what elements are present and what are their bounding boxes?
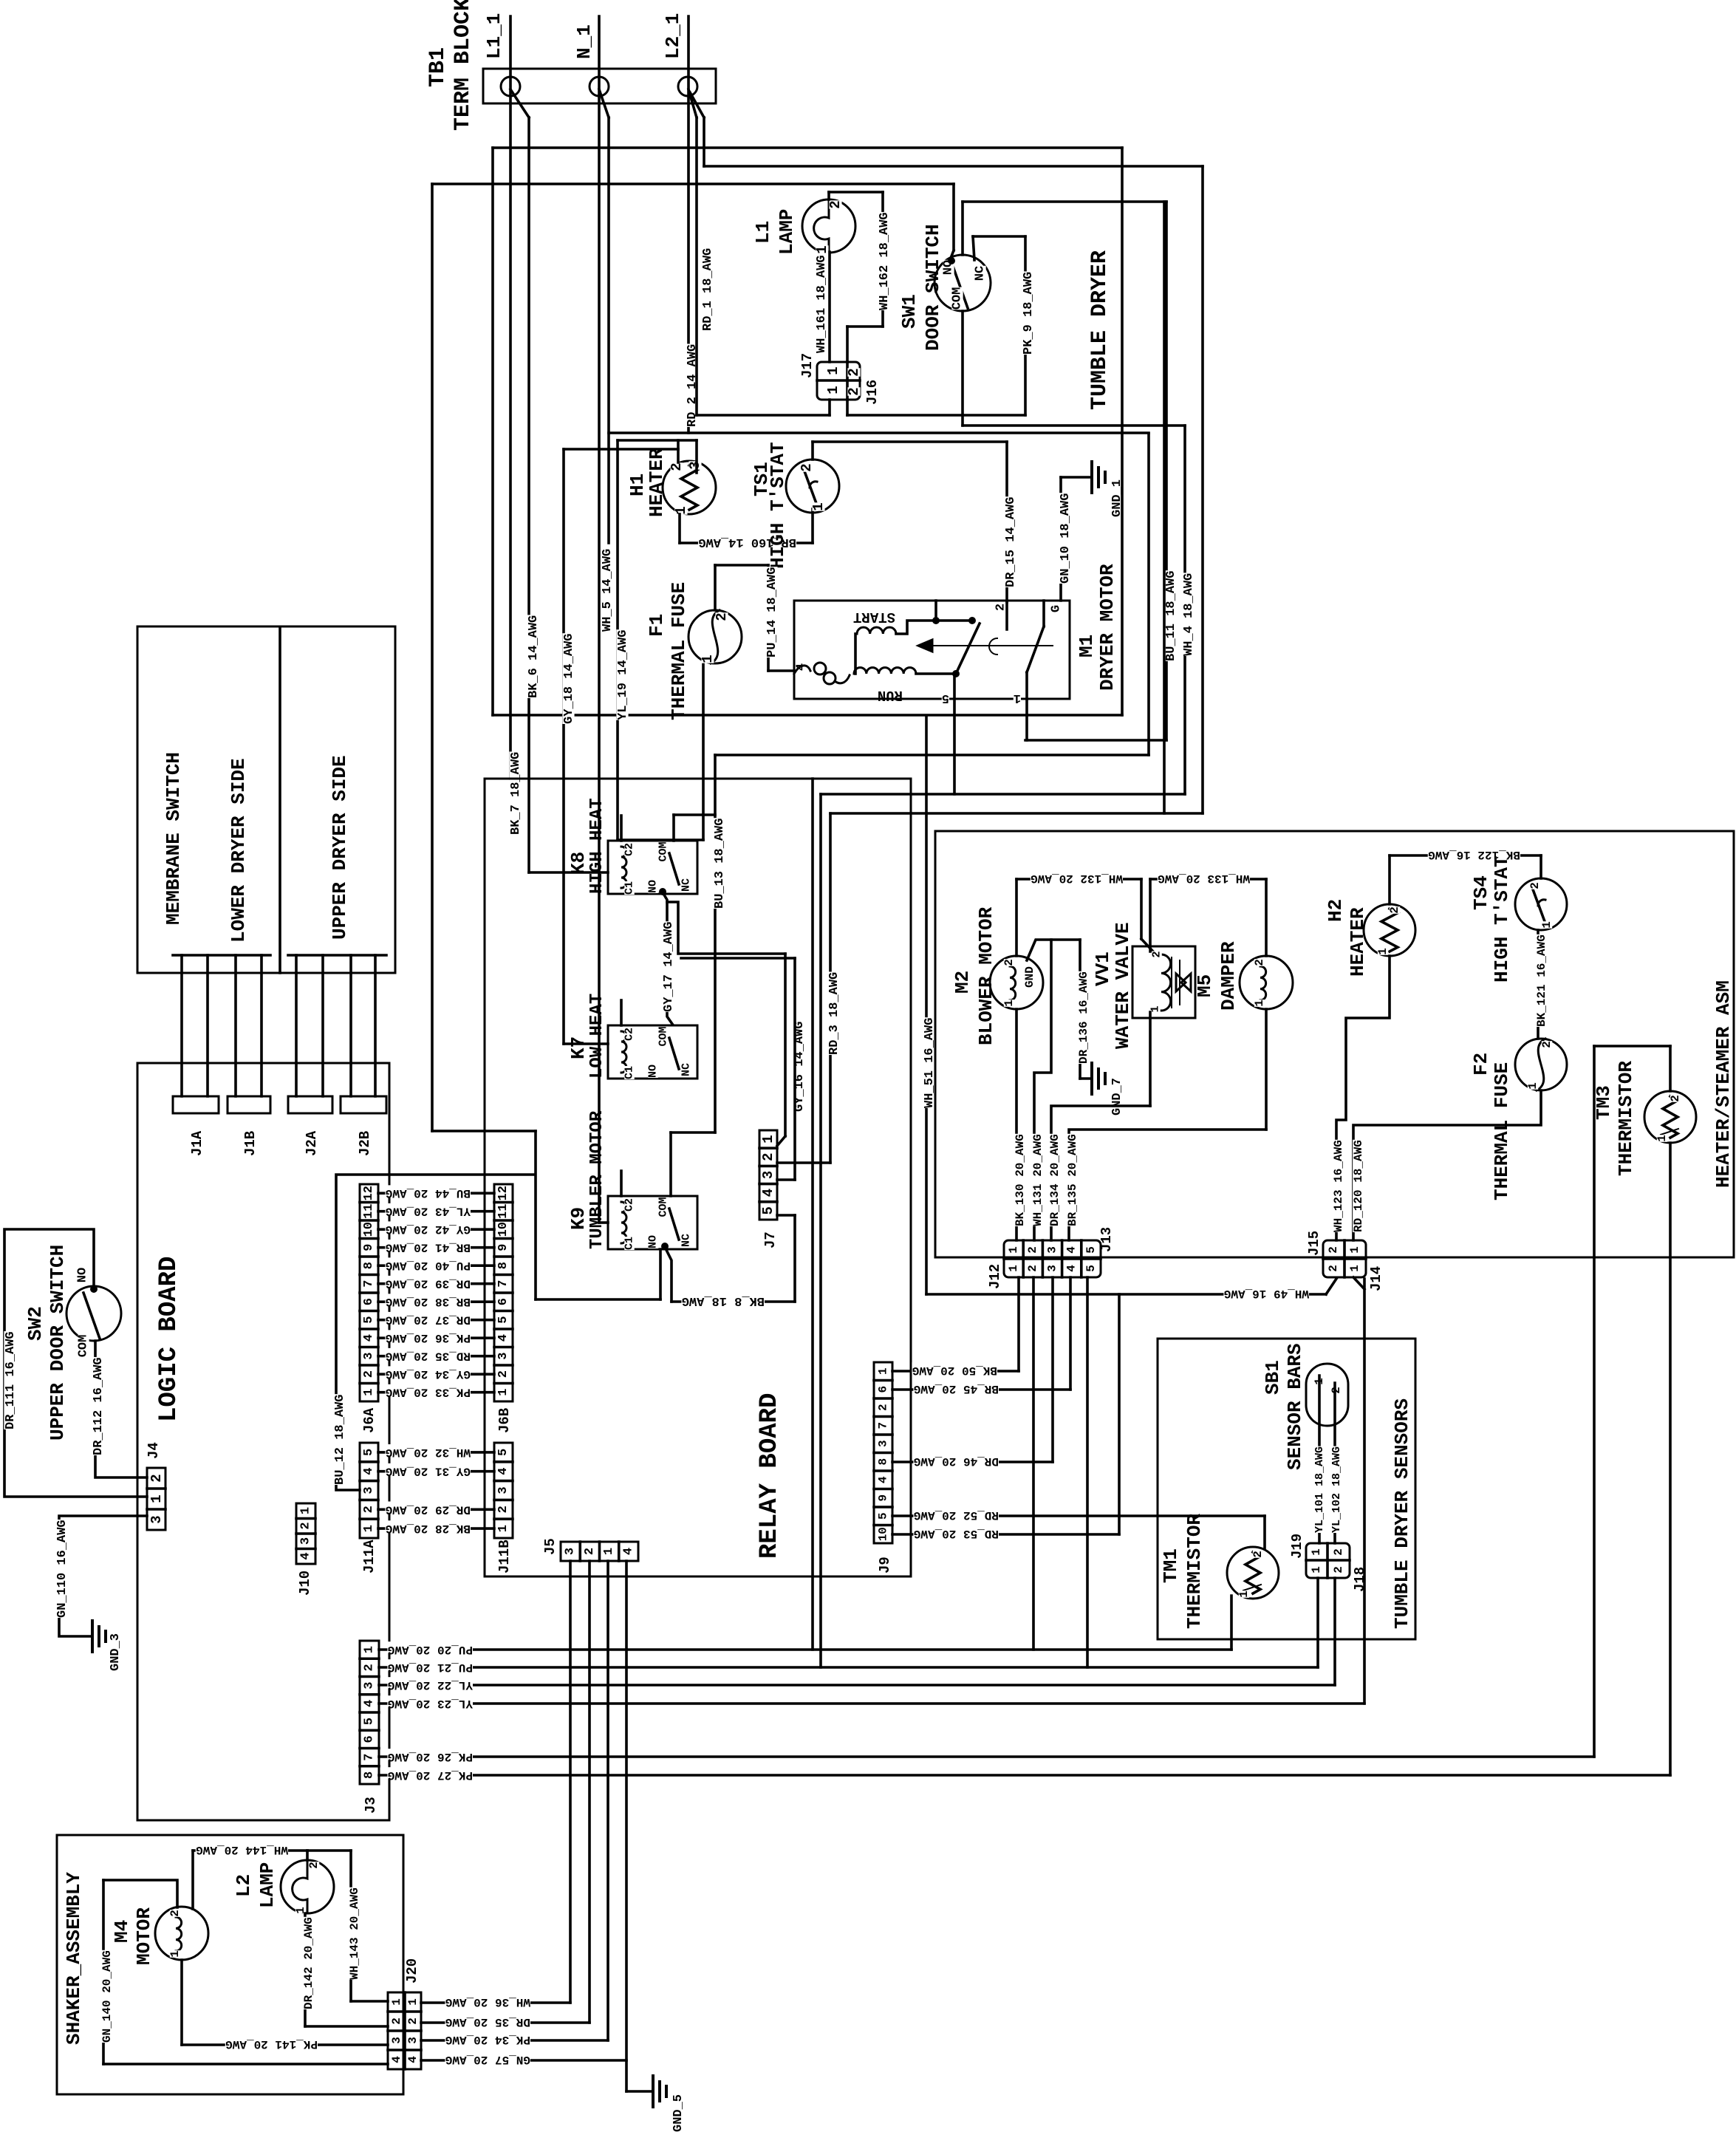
svg-text:3: 3 — [148, 1515, 165, 1523]
svg-text:BR_45 20_AWG: BR_45 20_AWG — [914, 1382, 999, 1395]
heater H2 — [1364, 904, 1415, 956]
svg-text:2: 2 — [827, 200, 844, 208]
connector J4 — [147, 1468, 165, 1530]
svg-text:TM3: TM3 — [1593, 1085, 1615, 1120]
label GN_140 — [101, 1950, 112, 2043]
label DR_136 — [1078, 971, 1089, 1064]
svg-text:YL_19 14_AWG: YL_19 14_AWG — [616, 630, 630, 720]
thermistor TM1 element — [1245, 1552, 1260, 1593]
wire K9 coil C2 stem — [620, 1171, 623, 1196]
svg-text:TUMBLE DRYER SENSORS: TUMBLE DRYER SENSORS — [1391, 1398, 1413, 1629]
wire WH_133 to M5-2 — [1265, 879, 1268, 956]
svg-text:DR_136 16_AWG: DR_136 16_AWG — [1077, 971, 1090, 1064]
svg-text:8: 8 — [362, 1262, 376, 1269]
wire J12-4 stem — [1069, 1277, 1072, 1390]
WV1 solenoid — [1161, 954, 1171, 1011]
svg-text:2: 2 — [1540, 1041, 1554, 1048]
connector J10 — [296, 1503, 315, 1564]
svg-text:HIGH T'STAT: HIGH T'STAT — [767, 442, 789, 569]
relay K9 contact lever — [669, 1209, 679, 1240]
svg-text:START: START — [853, 609, 895, 625]
wire WH_144 horizontal — [193, 1849, 307, 1852]
svg-text:1: 1 — [1376, 948, 1390, 955]
ribbon cable J2B right — [374, 955, 377, 1096]
svg-text:2: 2 — [1026, 1246, 1039, 1254]
thermistor TM3 element — [1663, 1096, 1678, 1138]
thermostat TS4 — [1515, 878, 1567, 930]
wire YL_19 vertical — [616, 440, 619, 840]
wire PK_9 top elbow — [973, 235, 1025, 238]
wire BU_13 bottom elbow — [671, 1131, 715, 1134]
thermal fuse F1 element — [711, 610, 720, 663]
wire BK_121 TS4-1 to F2-2 — [1537, 930, 1539, 1039]
thermostat TS4 lever hook — [1538, 900, 1545, 906]
wire horizontal y1531 — [432, 1130, 536, 1132]
wire WH_123 H2-1 to J15-2 — [1336, 956, 1390, 1240]
svg-text:1: 1 — [814, 245, 830, 253]
wire SW1-NO second drop — [961, 202, 964, 255]
svg-text:WH_36 20_AWG: WH_36 20_AWG — [445, 1995, 530, 2009]
pin 4 of M1 — [796, 663, 807, 671]
wire PK_34 J20 to J5-1 — [421, 2039, 608, 2042]
svg-text:TB1: TB1 — [426, 47, 451, 87]
wire GN_57 J20 to GND_5 — [421, 2059, 626, 2062]
heater/steamer assembly box — [935, 831, 1734, 1257]
wire N_1 branch diagonal — [599, 89, 609, 117]
svg-text:J13: J13 — [1098, 1227, 1115, 1252]
svg-text:COM: COM — [77, 1335, 91, 1358]
svg-text:RD_3 18_AWG: RD_3 18_AWG — [827, 972, 841, 1055]
wire BR_160 horizontal — [680, 541, 813, 544]
svg-text:2: 2 — [714, 612, 730, 621]
svg-text:4: 4 — [621, 1548, 635, 1555]
svg-text:2: 2 — [307, 1862, 321, 1869]
svg-text:J20: J20 — [404, 1958, 420, 1984]
svg-text:2: 2 — [1253, 959, 1266, 966]
svg-text:J3: J3 — [363, 1797, 379, 1814]
svg-text:BK_8 18_AWG: BK_8 18_AWG — [682, 1294, 765, 1308]
svg-text:2: 2 — [1388, 906, 1401, 914]
WV1 valve line b — [1179, 960, 1180, 1005]
label RD_120 — [1353, 1140, 1364, 1232]
svg-text:C2: C2 — [623, 1198, 636, 1212]
wire DR_39 J6A to J6B — [378, 1282, 494, 1285]
svg-text:3: 3 — [1045, 1265, 1059, 1272]
wire vertical x585 — [431, 184, 434, 1131]
wire PU_14 into M1-4 — [768, 669, 794, 672]
svg-text:J11A: J11A — [361, 1540, 377, 1574]
wire RD_2 jog horizontal y1022 — [715, 754, 1149, 756]
svg-text:BK_7 18_AWG: BK_7 18_AWG — [509, 752, 523, 835]
wire PK_26 from J3-7 — [379, 1755, 1594, 1758]
wire TM1-1 stem — [1230, 1596, 1233, 1650]
wire PK_27 TM3-1 vertical — [1669, 1143, 1672, 1775]
heater H1 — [663, 461, 716, 514]
ribbon cable J2B left — [349, 955, 352, 1096]
wire PK_9 vertical — [1024, 236, 1027, 415]
svg-text:7: 7 — [363, 1753, 377, 1760]
svg-text:DAMPER: DAMPER — [1217, 941, 1240, 1011]
wire horizontal y1759 to K9-NO — [536, 1298, 660, 1301]
svg-text:2: 2 — [496, 1370, 510, 1378]
wire WH_143 to J20-1 — [351, 2000, 388, 2003]
wire GY_31 J11A to J11B — [378, 1470, 494, 1473]
svg-text:2: 2 — [583, 1548, 597, 1555]
wire BK_8 vertical — [793, 1215, 796, 1302]
wire PK_27 from J3-8 — [379, 1774, 1670, 1777]
svg-text:2: 2 — [1332, 1548, 1345, 1556]
svg-text:WATER VALVE: WATER VALVE — [1112, 922, 1134, 1049]
svg-text:BU_44 20_AWG: BU_44 20_AWG — [386, 1186, 471, 1200]
WV1 valve triangle a — [1176, 974, 1186, 991]
lamp L1 filament — [814, 194, 829, 253]
wire BK_8 horizontal — [671, 1300, 795, 1303]
svg-text:1: 1 — [1348, 1265, 1361, 1272]
lamp L2 — [281, 1860, 334, 1913]
svg-text:WH_32 20_AWG: WH_32 20_AWG — [386, 1446, 471, 1459]
wire DR_111 SW2-NO to J4-1 — [4, 1229, 147, 1497]
relay K9 — [608, 1196, 697, 1249]
svg-text:4: 4 — [390, 2056, 403, 2063]
wire DR_134 from WV1-1 — [1149, 1012, 1152, 1106]
svg-text:GN_110 16_AWG: GN_110 16_AWG — [55, 1520, 69, 1618]
svg-text:COM: COM — [951, 287, 965, 310]
M1 tap from top edge — [934, 601, 937, 621]
svg-text:L2: L2 — [233, 1874, 255, 1897]
connector J3 — [360, 1641, 379, 1784]
svg-text:2: 2 — [1026, 1265, 1039, 1272]
wire PU_40 J6A to J6B — [378, 1264, 494, 1267]
wire SW1-NO feed horizontal y249 — [432, 182, 954, 185]
svg-text:PK_141 20_AWG: PK_141 20_AWG — [225, 2037, 318, 2051]
relay board box — [485, 779, 911, 1576]
svg-text:3: 3 — [363, 1681, 377, 1689]
label WH_161 — [815, 255, 827, 353]
wire K7 coil C2 stem — [620, 1000, 623, 1025]
motor M1 box — [794, 601, 1070, 699]
svg-text:GY_31 20_AWG: GY_31 20_AWG — [386, 1465, 471, 1478]
svg-text:1: 1 — [390, 1998, 403, 2006]
wire WH_132 vertical — [1140, 879, 1143, 939]
svg-text:H2: H2 — [1325, 899, 1347, 922]
relay K7 coil — [621, 1031, 626, 1073]
svg-text:C2: C2 — [623, 1028, 636, 1041]
wire GY_18 vertical — [562, 449, 565, 1044]
wire vertical x1519 — [1121, 148, 1124, 715]
wire K8-COM stem — [672, 815, 675, 841]
ribbon cable J2A left — [295, 955, 298, 1096]
wire SW1-COM vertical — [961, 311, 964, 426]
label RD_1 — [701, 247, 713, 331]
svg-text:J6A: J6A — [361, 1407, 377, 1433]
ground GND_1 — [1090, 462, 1093, 493]
svg-text:TERM BLOCK: TERM BLOCK — [451, 0, 476, 131]
M1 second contact lever — [1027, 626, 1044, 672]
wire RD_2 vertical x1555 — [1147, 434, 1150, 755]
svg-text:2: 2 — [299, 1522, 313, 1529]
wire horizontal y225 to x1628 — [704, 165, 1203, 168]
M1 centrifugal squiggle left — [794, 666, 810, 674]
wire RD_1 to J16-1 — [697, 414, 830, 417]
wire L1 pin2 stem — [827, 192, 830, 199]
wire PK_36 J6A to J6B — [378, 1336, 494, 1339]
svg-text:COM: COM — [657, 1026, 670, 1046]
thermostat TS4 lever — [1533, 889, 1545, 923]
membrane switch divider — [278, 629, 281, 973]
thermostat TS1 lever — [804, 471, 817, 505]
wire WH_143 top — [307, 1849, 351, 1852]
M1 rotor arrow shaft — [918, 645, 1053, 646]
svg-text:7: 7 — [362, 1280, 376, 1288]
wire DR_29 J11A to J11B — [378, 1509, 494, 1511]
svg-text:C1: C1 — [623, 881, 636, 895]
wire WH_162 elbow — [847, 325, 883, 328]
wire BU_44 J6A to J6B — [378, 1192, 494, 1195]
svg-text:WH_162 18_AWG: WH_162 18_AWG — [878, 212, 892, 310]
label WH_133 — [1158, 870, 1250, 881]
label BK_122 — [1428, 847, 1520, 858]
label BK_121 — [1536, 935, 1547, 1027]
svg-text:YL_43 20_AWG: YL_43 20_AWG — [386, 1205, 471, 1218]
wire GY_16 into J7-1 — [777, 1136, 785, 1146]
M1 second contact stem — [1042, 601, 1045, 626]
label BU_13 — [713, 818, 725, 909]
connector J11B — [494, 1443, 513, 1538]
svg-text:J9: J9 — [877, 1557, 893, 1574]
wire WH_131 to J13-2 — [1034, 940, 1051, 1240]
wire PK_9 horizontal y562 — [847, 414, 1025, 417]
wire F1 pin1 stem — [702, 663, 705, 840]
M1 switch lever — [956, 623, 980, 674]
svg-text:8: 8 — [877, 1458, 890, 1466]
svg-text:2: 2 — [148, 1474, 165, 1482]
svg-text:PK_26 20_AWG: PK_26 20_AWG — [388, 1750, 473, 1763]
ribbon cable J1A right — [206, 955, 209, 1096]
door switch SW2 — [66, 1286, 121, 1341]
svg-text:5: 5 — [362, 1316, 376, 1324]
connector J11A — [360, 1443, 378, 1538]
M5 winding — [1260, 966, 1266, 1000]
svg-text:10: 10 — [877, 1527, 890, 1541]
switch SW2 lever — [83, 1293, 100, 1339]
svg-text:RD_53 20_AWG: RD_53 20_AWG — [914, 1527, 999, 1540]
svg-text:3: 3 — [687, 461, 703, 469]
wire WH_51 vertical — [925, 716, 928, 1294]
svg-text:3: 3 — [390, 2037, 403, 2044]
svg-text:3: 3 — [406, 2037, 420, 2044]
water valve WV1 box — [1132, 946, 1195, 1018]
svg-text:NO: NO — [647, 1235, 660, 1248]
ribbon cable J1B left — [234, 955, 237, 1096]
svg-text:YL_22 20_AWG: YL_22 20_AWG — [388, 1678, 473, 1692]
svg-text:4: 4 — [299, 1552, 313, 1559]
svg-text:4: 4 — [1065, 1246, 1079, 1254]
svg-text:1: 1 — [1655, 1135, 1669, 1142]
svg-text:5: 5 — [496, 1449, 510, 1456]
label BK_8 — [681, 1293, 765, 1305]
svg-text:BR_38 20_AWG: BR_38 20_AWG — [386, 1295, 471, 1308]
blower motor M2 — [990, 956, 1043, 1009]
wire neutral loop horizontal y968 — [493, 714, 1122, 717]
wire J18-2 stem down — [1333, 1578, 1336, 1685]
svg-text:DRYER MOTOR: DRYER MOTOR — [1096, 564, 1118, 691]
label PK_141 — [225, 2036, 318, 2047]
label BK_130 — [1014, 1134, 1025, 1226]
wire GY_16 vertical — [784, 954, 787, 1136]
svg-text:3: 3 — [877, 1440, 890, 1447]
svg-text:GY_18 14_AWG: GY_18 14_AWG — [562, 634, 576, 724]
svg-text:TUMBLER MOTOR: TUMBLER MOTOR — [587, 1110, 607, 1249]
label GN_10 — [1059, 493, 1070, 584]
connector J17/J16 column divider — [846, 362, 849, 400]
wire WH_5 N_1 main vertical — [598, 16, 601, 1223]
wire J12-5 stem long — [1086, 1277, 1089, 1667]
wire J16-2 stem — [846, 400, 849, 415]
svg-text:GY_42 20_AWG: GY_42 20_AWG — [386, 1223, 471, 1236]
wire WH_4 horizontal y576 — [963, 424, 1185, 427]
svg-text:11: 11 — [362, 1203, 376, 1218]
svg-text:GND_3: GND_3 — [109, 1633, 123, 1671]
svg-text:GN_10 18_AWG: GN_10 18_AWG — [1059, 493, 1073, 584]
wire J18-1 stem down — [1316, 1578, 1319, 1667]
svg-text:1: 1 — [496, 1389, 510, 1396]
lamp L1 — [802, 199, 855, 253]
svg-text:BLOWER MOTOR: BLOWER MOTOR — [975, 906, 997, 1045]
svg-text:K8: K8 — [567, 852, 590, 875]
wire WH_32 J11A to J11B — [378, 1451, 494, 1454]
svg-text:4: 4 — [496, 1468, 510, 1475]
label BK_6 — [527, 615, 539, 698]
svg-text:1: 1 — [1007, 1246, 1020, 1254]
svg-text:THERMAL FUSE: THERMAL FUSE — [668, 582, 690, 720]
M2 winding — [1010, 966, 1016, 1000]
wire YL_43 J6A to J6B — [378, 1210, 494, 1213]
svg-text:NC: NC — [680, 878, 693, 892]
svg-text:2: 2 — [1669, 1095, 1682, 1102]
wire WH_143 vertical — [349, 1851, 352, 2001]
label PU_14 — [765, 567, 777, 657]
svg-text:WH_4 18_AWG: WH_4 18_AWG — [1182, 573, 1196, 656]
relay K8 coil — [621, 847, 626, 888]
svg-text:1: 1 — [406, 1998, 420, 2006]
label WH_5 — [601, 548, 612, 632]
svg-text:HEATER/STEAMER ASM: HEATER/STEAMER ASM — [1712, 980, 1735, 1188]
wire RD_2 L2_1 main vertical — [687, 16, 690, 433]
svg-text:UPPER DOOR SWITCH: UPPER DOOR SWITCH — [47, 1245, 69, 1441]
label WH_131 — [1032, 1134, 1043, 1226]
wire RD_2 horizontal y586 — [609, 431, 1149, 434]
svg-text:GY_17 14_AWG: GY_17 14_AWG — [662, 922, 676, 1012]
M1 rotation arc — [989, 638, 997, 655]
svg-text:5: 5 — [1084, 1265, 1098, 1272]
ribbon cable J2A right — [321, 955, 324, 1096]
svg-text:DR_111 16_AWG: DR_111 16_AWG — [4, 1331, 18, 1429]
connector J1B — [228, 1096, 270, 1113]
wire DR_112 SW2-COM to J4-2 — [95, 1341, 147, 1477]
svg-text:5: 5 — [496, 1316, 510, 1324]
svg-text:J2A: J2A — [304, 1130, 320, 1156]
wire y1075 to M1-5 — [821, 793, 1185, 796]
pin G of M1 — [1050, 605, 1062, 612]
label PK_9 — [1022, 271, 1033, 355]
wire YL_19 to F1-1 — [618, 838, 703, 841]
wire J12-3 stem — [1051, 1277, 1054, 1462]
label DR_142 — [303, 1917, 314, 2009]
label BU_12 — [333, 1394, 345, 1485]
svg-text:RD_35 20_AWG: RD_35 20_AWG — [386, 1350, 471, 1363]
wire BU_11 to M1-1 — [1025, 739, 1166, 742]
svg-text:1: 1 — [1253, 1000, 1266, 1007]
svg-text:4: 4 — [760, 1189, 776, 1197]
wire WH_162 into J17-2 — [846, 327, 849, 362]
wire GY_18 elbow — [564, 448, 678, 451]
svg-text:5: 5 — [942, 691, 949, 705]
svg-text:DR_112 16_AWG: DR_112 16_AWG — [92, 1357, 106, 1455]
ground GND_5 — [652, 2076, 655, 2107]
svg-text:J7: J7 — [762, 1231, 779, 1248]
svg-text:3: 3 — [496, 1486, 510, 1494]
svg-text:LAMP: LAMP — [776, 209, 798, 255]
wire SW1-NC drop — [973, 236, 974, 260]
svg-text:2: 2 — [1330, 1387, 1343, 1394]
svg-text:1: 1 — [810, 502, 827, 510]
svg-text:2: 2 — [799, 463, 815, 471]
svg-text:L1_1: L1_1 — [483, 13, 505, 59]
svg-text:J4: J4 — [146, 1442, 162, 1459]
wire long vertical x1100 — [811, 779, 814, 1650]
wire F1 pin2 stem — [714, 565, 717, 610]
connector J17/J16 divider — [817, 379, 860, 382]
wire neutral loop left vertical — [491, 148, 494, 715]
wire WH_36 J20 to J5-3 — [421, 2001, 570, 2004]
svg-text:K9: K9 — [567, 1207, 590, 1230]
svg-text:9: 9 — [362, 1244, 376, 1251]
wire WH_4 vertical x1604 — [1183, 426, 1186, 794]
wire WH_49 horizontal — [926, 1293, 1326, 1296]
wire RD_53 J9 — [892, 1533, 1119, 1536]
wire GN_140 top — [103, 1880, 177, 1907]
wire L2_1 branch diagonal 1 — [688, 89, 697, 117]
wire PK_33 J6A to J6B — [378, 1391, 494, 1394]
svg-text:1: 1 — [1313, 1378, 1326, 1385]
svg-text:BR_135 20_AWG: BR_135 20_AWG — [1066, 1134, 1079, 1226]
svg-text:BU_12 18_AWG: BU_12 18_AWG — [333, 1395, 347, 1485]
wire SW1-NO drop — [952, 184, 955, 250]
svg-text:DR_46 20_AWG: DR_46 20_AWG — [914, 1455, 999, 1468]
connector J2B — [341, 1096, 386, 1113]
label DR_134 — [1049, 1134, 1060, 1226]
wire DR_142 L2-1 vertical — [304, 1913, 307, 2026]
svg-text:1: 1 — [1310, 1566, 1323, 1574]
svg-text:3: 3 — [362, 1486, 376, 1494]
svg-text:11: 11 — [496, 1203, 510, 1218]
svg-text:1: 1 — [362, 1389, 376, 1396]
wire L1_1 branch diagonal — [510, 89, 529, 117]
wire BK_122 to TS4-2 — [1539, 855, 1542, 878]
wire H1 pin1 stem — [678, 514, 681, 543]
svg-text:M2: M2 — [951, 971, 974, 994]
wire PU_14 elbow — [715, 564, 768, 567]
door switch SW1 — [934, 255, 991, 311]
label GY_17 — [662, 921, 674, 1012]
svg-text:2: 2 — [363, 1664, 377, 1671]
wire DR_15 vertical — [1005, 442, 1008, 602]
terminal block TB1 — [483, 69, 716, 103]
svg-text:DR_134 20_AWG: DR_134 20_AWG — [1048, 1134, 1062, 1226]
wire M1 pin1 vertical — [1025, 672, 1028, 740]
svg-text:6: 6 — [362, 1298, 376, 1305]
WV1 valve line a — [1171, 957, 1172, 1008]
